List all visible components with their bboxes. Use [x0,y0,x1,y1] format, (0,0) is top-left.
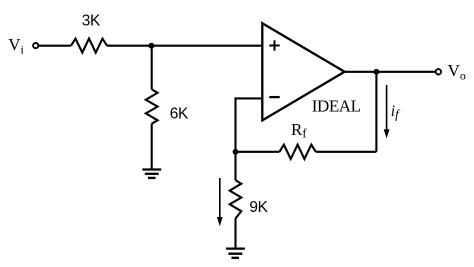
terminal Vo [436,69,441,74]
resistor 3K [71,39,107,53]
resistor 9K [230,180,242,218]
op-amp U1 [262,23,344,120]
current arrow if [384,85,390,139]
wire 9K to ground [234,219,236,249]
junction node B [233,149,239,155]
wire node B to 9K [234,152,236,180]
resistor 6K [146,89,158,123]
svg-text:6K: 6K [170,106,189,123]
ground bottom [226,249,245,258]
svg-text:9K: 9K [249,199,268,216]
junction output node [374,69,380,75]
op-amp minus sign [269,96,279,98]
op-amp plus sign [269,40,279,50]
resistor Rf [279,145,315,159]
wire node B to Rf [236,151,280,153]
terminal Vi [33,43,38,48]
wire op-amp minus input [236,97,263,99]
wire to op-amp plus input [107,45,262,47]
svg-text:3K: 3K [82,13,101,30]
wire 6K to ground [151,124,153,170]
wire input [39,45,71,47]
wire Rf to feedback right vertical [316,151,377,153]
svg-text:IDEAL: IDEAL [312,96,361,115]
junction node A [149,43,155,49]
wire output [345,71,436,73]
wire feedback right vertical [375,72,377,152]
current arrow 9K [217,178,223,226]
wire feedback left vertical [234,97,236,151]
wire node A down [151,46,153,90]
ground left [142,170,161,178]
